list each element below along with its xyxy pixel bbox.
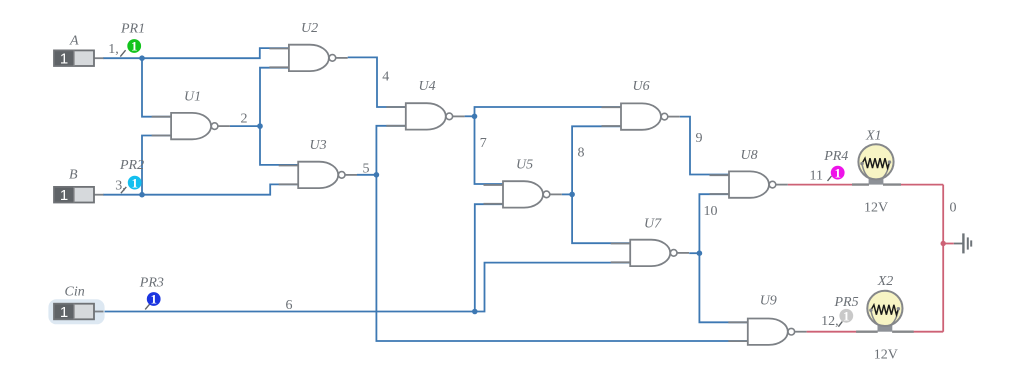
NAND gate U4 [386, 79, 464, 130]
svg-text:PR4: PR4 [823, 149, 848, 164]
svg-text:PR5: PR5 [834, 295, 859, 310]
wire net 12: lamp X2 to net 0 vertical [913, 331, 943, 333]
NAND gate U9 [728, 294, 806, 345]
svg-text:PR2: PR2 [119, 158, 144, 173]
svg-text:8: 8 [578, 145, 585, 160]
wire net 10: junction up to U8 bottom input [699, 194, 729, 253]
svg-text:1: 1 [843, 309, 850, 324]
svg-text:PR1: PR1 [120, 21, 145, 36]
junction node net 10 [697, 250, 703, 256]
svg-text:1,: 1, [108, 42, 119, 57]
wire net 4: U2 output down to U4 top input [348, 57, 406, 107]
svg-text:3,: 3, [115, 179, 126, 194]
svg-text:U2: U2 [301, 21, 318, 36]
NAND gate U3 [279, 138, 357, 188]
svg-text:U5: U5 [516, 157, 533, 172]
svg-text:10: 10 [704, 204, 718, 219]
probe PR5 [821, 295, 859, 329]
wire net 0: right vertical rail [942, 185, 944, 332]
svg-text:U8: U8 [741, 148, 758, 163]
input source A (digital constant 1) [54, 34, 104, 68]
probe PR3 [139, 276, 164, 310]
wire net 7: U4 output to junction [465, 115, 475, 117]
wire net 12: U9 output to lamp X2 [807, 331, 857, 333]
wire net 7: junction down to U5 top input [475, 116, 504, 184]
ground symbol (digital ground) [954, 233, 971, 253]
wire net 6: source Cin across to junction [103, 311, 475, 313]
input source Cin (digital constant 1) [48, 285, 104, 325]
svg-text:B: B [69, 168, 78, 183]
svg-text:A: A [69, 34, 79, 49]
svg-text:9: 9 [696, 131, 703, 146]
svg-text:1: 1 [150, 292, 157, 307]
svg-text:PR3: PR3 [139, 276, 164, 291]
svg-text:6: 6 [286, 298, 293, 313]
wire net A: source A to junction to U2 top input [103, 48, 289, 58]
svg-text:Cin: Cin [65, 285, 85, 300]
wire net 10: junction down to U9 top input [699, 253, 747, 322]
wire net 6: junction up to U5 bottom input [475, 204, 503, 311]
probe PR2 [115, 158, 144, 194]
svg-text:U3: U3 [310, 138, 327, 153]
svg-text:12V: 12V [874, 347, 898, 362]
lamp X2 12V [856, 274, 914, 362]
wire net 10: U7 output to junction [689, 252, 699, 254]
NAND gate U1 [152, 90, 230, 140]
svg-text:1: 1 [60, 187, 68, 204]
wire net 2: U1 output to vertical bus [230, 125, 260, 127]
svg-text:U7: U7 [644, 217, 662, 232]
wire net B: source B to corner to U3 bottom input [103, 184, 298, 194]
wire net B: junction up to U1 bottom input [142, 136, 171, 195]
wire net 8: junction up to U6 bottom input [572, 126, 621, 194]
svg-text:X1: X1 [865, 129, 882, 144]
svg-text:1: 1 [131, 39, 138, 54]
NAND gate U6 [602, 79, 680, 130]
lamp X1 12V [852, 129, 901, 216]
svg-text:4: 4 [382, 70, 389, 85]
svg-text:11: 11 [810, 169, 823, 184]
wire net 5: U3 output to junction [357, 174, 376, 176]
svg-text:0: 0 [950, 200, 957, 215]
junction node net 8 [569, 192, 575, 198]
junction node net 6 [472, 309, 478, 315]
junction node net B [139, 192, 145, 198]
svg-text:1: 1 [60, 304, 68, 321]
junction node net 7 [472, 114, 478, 120]
junction node net 0 [941, 241, 946, 246]
wire net 5: junction down and across to U9 bottom input [376, 175, 747, 341]
wire net 9: U6 output down to U8 top input [680, 117, 729, 175]
wire net 8: junction down to U7 top input [572, 194, 630, 243]
probe PR1 [108, 21, 145, 57]
NAND gate U8 [710, 148, 788, 198]
NAND gate U2 [269, 21, 347, 71]
wire net 5: junction up to U4 bottom input [376, 126, 405, 175]
probe PR4 [810, 149, 849, 184]
svg-text:U9: U9 [760, 294, 777, 309]
wire net 2: vertical, U2 bottom input to U3 top input [260, 68, 298, 165]
wire net 11: lamp X1 right lead to net 0 corner [901, 184, 943, 186]
svg-text:1: 1 [834, 165, 841, 180]
wire net 7: junction up and across to U6 top input [475, 107, 622, 116]
junction node net A [139, 55, 145, 61]
junction node net 5 [374, 172, 380, 178]
wire net A: junction down to U1 top input [142, 58, 171, 116]
wire net 11: U8 output to lamp X1 [788, 184, 852, 186]
wire net 8: U5 output to junction [562, 193, 572, 195]
input source B (digital constant 1) [54, 168, 104, 205]
junction node net 2 [257, 123, 263, 129]
svg-text:X2: X2 [877, 274, 894, 289]
svg-text:5: 5 [363, 162, 370, 177]
svg-text:12V: 12V [864, 201, 888, 216]
svg-text:U6: U6 [633, 79, 650, 94]
NAND gate U7 [611, 217, 689, 267]
svg-text:1: 1 [60, 51, 68, 68]
wire net 6: junction right and up to U7 bottom input [475, 263, 630, 312]
svg-text:12,: 12, [821, 314, 839, 329]
svg-text:2: 2 [241, 112, 248, 127]
svg-text:1: 1 [131, 175, 138, 190]
wire net 0: stub to ground [943, 243, 954, 245]
svg-text:7: 7 [480, 136, 487, 151]
svg-text:U4: U4 [419, 79, 436, 94]
svg-text:U1: U1 [184, 90, 201, 105]
NAND gate U5 [484, 157, 562, 207]
